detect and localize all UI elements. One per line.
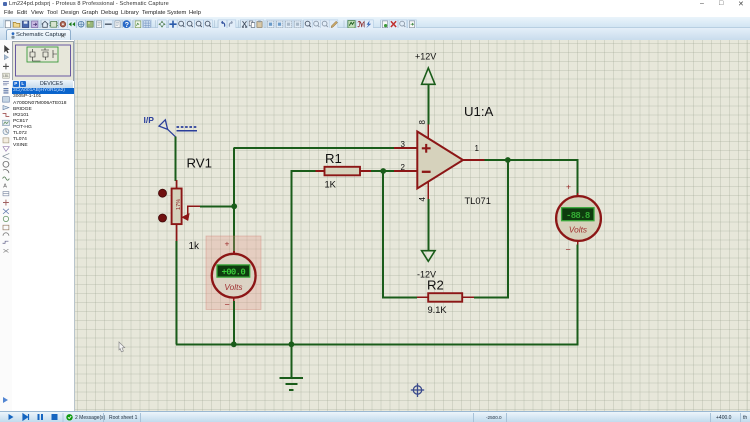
selection highlight: [206, 236, 261, 310]
wire R1 left vertical to ground rail: [290, 170, 292, 344]
junction node B: [380, 168, 386, 174]
power +12V: [415, 52, 436, 125]
wire RV1 wiper to node A: [200, 205, 234, 207]
svg-text:1: 1: [475, 144, 480, 153]
svg-text:9.1K: 9.1K: [428, 305, 448, 315]
svg-text:2: 2: [401, 163, 406, 172]
mouse cursor: [119, 342, 125, 352]
wire R2 right up to output: [474, 160, 508, 297]
wire bottom rail: [176, 343, 579, 345]
svg-text:17%: 17%: [176, 199, 182, 210]
wire pin3 horizontal: [233, 147, 394, 149]
resistor R1: [316, 167, 372, 176]
svg-text:4: 4: [418, 197, 427, 202]
op-amp U1:A: [417, 124, 463, 201]
junction meter1 bottom: [231, 341, 237, 347]
wire input to RV1 top: [175, 137, 177, 182]
wire node A vertical: [233, 148, 235, 252]
svg-text:U1:A: U1:A: [464, 104, 494, 119]
power -12V: [417, 199, 436, 280]
junction node A: [231, 203, 237, 209]
wire meter1 bottom to rail: [233, 301, 235, 344]
svg-text:I/P: I/P: [144, 115, 155, 125]
svg-text:−: −: [225, 300, 230, 310]
svg-text:-12V: -12V: [417, 270, 436, 280]
terminal I/P: [144, 115, 198, 137]
svg-text:8: 8: [418, 120, 427, 125]
pin 3 stub: [394, 147, 418, 149]
potentiometer RV1: [172, 180, 200, 241]
resistor R2: [417, 293, 474, 302]
junction ground: [289, 341, 295, 347]
wire output to meter2: [485, 160, 578, 196]
voltmeter left: [212, 239, 256, 310]
svg-text:+12V: +12V: [415, 52, 436, 62]
svg-text:Volts: Volts: [569, 225, 587, 235]
svg-text:−: −: [566, 245, 571, 255]
svg-text:R1: R1: [325, 151, 342, 166]
RV1 terminal dot upper: [159, 189, 167, 197]
ground: [279, 344, 303, 390]
output pin 1 stub: [463, 159, 485, 161]
svg-text:-88.8: -88.8: [566, 211, 590, 221]
voltmeter right: [556, 182, 601, 255]
svg-text:3: 3: [401, 140, 406, 149]
svg-text:1K: 1K: [325, 180, 337, 190]
pin 2 stub: [394, 170, 418, 172]
wire R1 left: [291, 170, 315, 172]
wire meter2 bottom to rail: [577, 245, 579, 345]
svg-text:1k: 1k: [189, 241, 201, 252]
wire node B down to R2: [383, 171, 417, 297]
svg-text:+00.0: +00.0: [222, 268, 246, 278]
RV1 terminal dot lower: [159, 214, 167, 222]
svg-text:RV1: RV1: [187, 156, 212, 171]
svg-text:+: +: [225, 239, 230, 249]
origin marker: [411, 383, 424, 397]
wire R1 right to pin2: [371, 170, 394, 172]
junction output node: [505, 157, 511, 163]
svg-text:TL071: TL071: [465, 196, 491, 206]
svg-text:LBL: LBL: [3, 74, 9, 78]
svg-text:A: A: [3, 183, 7, 189]
svg-text:R2: R2: [427, 278, 444, 293]
svg-text:Volts: Volts: [224, 282, 242, 292]
wire RV1 bottom to bottom rail: [176, 241, 178, 344]
svg-text:+: +: [566, 182, 571, 192]
